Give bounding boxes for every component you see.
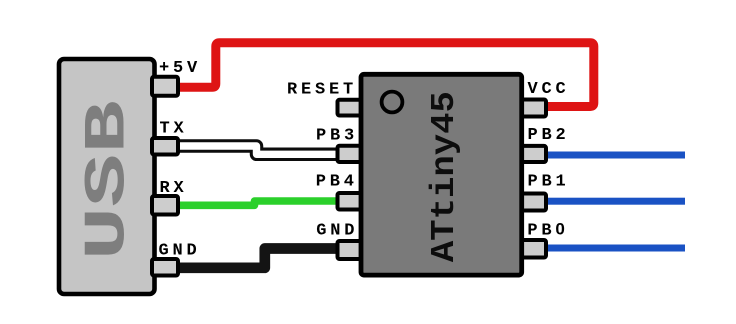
pin +5V (USB)	[152, 77, 178, 96]
wire blue PB0	[545, 245, 685, 252]
svg-text:PB4: PB4	[316, 173, 358, 192]
IC ATtiny45 body	[361, 74, 522, 275]
svg-text:VCC: VCC	[528, 80, 570, 99]
pin VCC (chip right)	[521, 100, 546, 117]
pin TX (USB)	[152, 138, 178, 155]
wire red +5V to VCC	[175, 43, 594, 107]
pin PB1 (chip right)	[521, 194, 546, 211]
pin PB2 (chip right)	[521, 146, 546, 162]
wire blue PB1	[545, 198, 685, 205]
IC pin-1 indicator circle	[382, 92, 403, 113]
wire white TX to PB3 (outline)	[176, 146, 342, 154]
pin PB3 (chip left)	[338, 146, 362, 162]
svg-text:ATtiny45: ATtiny45	[426, 91, 463, 262]
pin PB4 (chip left)	[338, 193, 362, 210]
svg-text:PB2: PB2	[528, 126, 570, 145]
svg-text:+5V: +5V	[159, 59, 201, 78]
svg-text:PB0: PB0	[527, 220, 568, 241]
wire black GND to GND	[176, 249, 342, 268]
svg-text:GND: GND	[316, 222, 358, 241]
pin GND (USB)	[152, 259, 178, 276]
wire white TX to PB3 (core)	[176, 146, 342, 154]
svg-text:USB: USB	[77, 100, 142, 260]
pin PB0 (chip right)	[521, 240, 546, 258]
pin GND (chip left)	[338, 241, 362, 259]
pin RX (USB)	[152, 196, 178, 215]
svg-text:GND: GND	[159, 241, 201, 260]
svg-text:PB1: PB1	[528, 173, 570, 192]
wire blue PB2	[545, 152, 685, 159]
svg-text:PB3: PB3	[316, 126, 358, 145]
svg-text:RESET: RESET	[287, 80, 357, 99]
pin RESET (chip left)	[338, 100, 362, 116]
wire green RX to PB4	[176, 201, 342, 205]
svg-text:TX: TX	[160, 119, 188, 138]
USB connector body	[59, 59, 155, 294]
svg-text:RX: RX	[160, 179, 188, 198]
